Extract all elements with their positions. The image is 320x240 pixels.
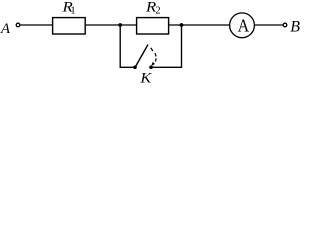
resistor R1 (53, 18, 86, 34)
resistor R2 (137, 18, 169, 34)
svg-text:A: A (0, 21, 11, 37)
svg-text:B: B (290, 19, 300, 36)
terminal B (283, 23, 287, 27)
switch K left contact (133, 66, 137, 70)
ammeter U1 (230, 13, 255, 38)
switch K arrowhead (152, 62, 155, 65)
svg-text:A: A (238, 15, 250, 35)
wire R2 to ammeter (169, 24, 230, 26)
wire A to R1 (20, 24, 52, 26)
svg-text:K: K (139, 70, 152, 84)
switch K dashed travel arc (151, 48, 157, 62)
wire right vertical drop (152, 25, 182, 67)
junction node left (118, 23, 122, 27)
wire R1 to R2 (85, 24, 136, 26)
terminal A (16, 23, 20, 27)
svg-text:2: 2 (155, 6, 160, 17)
switch K right contact (149, 66, 153, 70)
wire ammeter to B (254, 24, 282, 26)
wire left vertical drop (120, 25, 134, 67)
switch K blade (135, 45, 148, 68)
svg-text:1: 1 (70, 6, 75, 17)
junction node right (180, 23, 184, 27)
